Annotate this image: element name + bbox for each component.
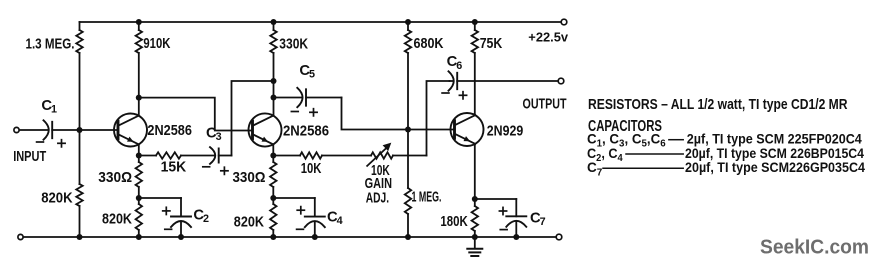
svg-text:2: 2 <box>203 213 209 225</box>
svg-text:5: 5 <box>309 69 315 81</box>
svg-text:7: 7 <box>540 216 546 228</box>
svg-text:180K: 180K <box>440 214 468 230</box>
svg-text:2µf, TI type SCM 225FP020C4: 2µf, TI type SCM 225FP020C4 <box>687 132 862 147</box>
svg-text:330K: 330K <box>279 37 308 53</box>
svg-text:15K: 15K <box>161 159 187 175</box>
svg-text:820K: 820K <box>234 215 264 231</box>
svg-text:10K: 10K <box>301 161 322 177</box>
svg-text:6: 6 <box>456 60 462 72</box>
svg-text:20µf, TI type SCM 226BP015C4: 20µf, TI type SCM 226BP015C4 <box>685 146 864 161</box>
svg-text:2N2586: 2N2586 <box>283 123 329 139</box>
svg-text:1 MEG.: 1 MEG. <box>412 189 442 205</box>
svg-text:ADJ.: ADJ. <box>366 190 389 206</box>
svg-text:1: 1 <box>51 104 57 116</box>
svg-text:680K: 680K <box>414 36 444 52</box>
svg-text:OUTPUT: OUTPUT <box>523 97 567 113</box>
svg-text:INPUT: INPUT <box>13 149 46 165</box>
svg-text:SeekIC.com: SeekIC.com <box>760 236 869 259</box>
svg-text:2N2586: 2N2586 <box>147 123 192 139</box>
svg-text:820K: 820K <box>41 191 73 207</box>
svg-text:330Ω: 330Ω <box>233 170 266 186</box>
svg-text:75K: 75K <box>480 36 503 52</box>
svg-text:2N929: 2N929 <box>487 124 524 140</box>
svg-text:4: 4 <box>337 215 343 227</box>
svg-text:910K: 910K <box>143 36 170 52</box>
svg-text:1.3 MEG.: 1.3 MEG. <box>26 37 75 53</box>
svg-text:3: 3 <box>216 131 222 143</box>
svg-text:20µf, TI type SCM226GP035C4: 20µf, TI type SCM226GP035C4 <box>685 160 865 175</box>
svg-text:330Ω: 330Ω <box>98 170 132 186</box>
svg-text:+22.5v: +22.5v <box>528 30 568 45</box>
svg-text:820K: 820K <box>102 212 132 228</box>
svg-text:RESISTORS – ALL 1/2 watt, TI t: RESISTORS – ALL 1/2 watt, TI type CD1/2 … <box>588 97 848 113</box>
